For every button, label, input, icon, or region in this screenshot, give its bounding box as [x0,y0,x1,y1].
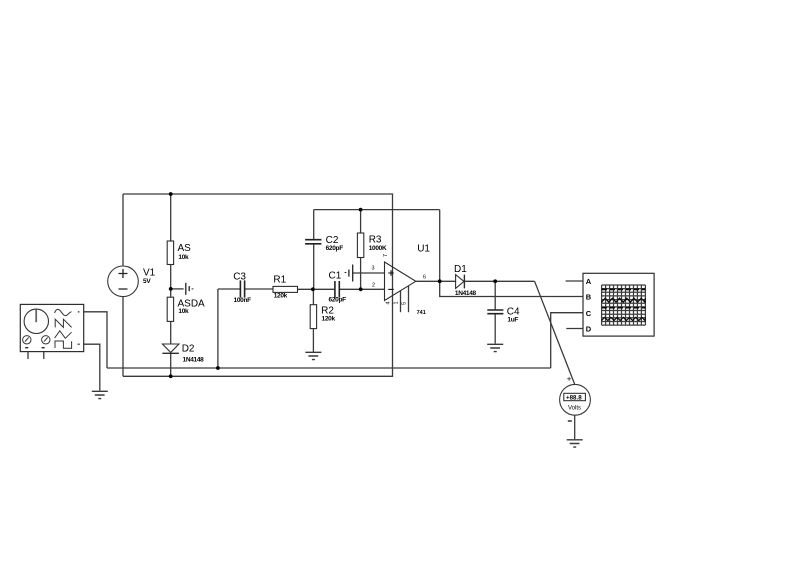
svg-text:1: 1 [394,301,400,304]
svg-text:3: 3 [372,265,375,271]
svg-text:+88.8: +88.8 [566,395,582,402]
svg-text:1000K: 1000K [369,245,387,252]
svg-text:Volts: Volts [568,406,581,412]
svg-text:D1: D1 [454,264,467,275]
svg-text:120k: 120k [322,316,336,323]
svg-text:A: A [586,277,592,286]
svg-text:10k: 10k [178,254,189,261]
svg-text:1uF: 1uF [507,317,518,324]
svg-text:AS: AS [178,243,192,254]
svg-text:10k: 10k [178,308,189,315]
svg-text:120k: 120k [274,293,288,300]
svg-text:620pF: 620pF [326,245,344,252]
svg-text:D2: D2 [182,344,195,355]
svg-text:D: D [586,325,592,334]
svg-text:4: 4 [386,301,392,304]
svg-text:5V: 5V [143,278,151,285]
svg-text:741: 741 [417,310,426,316]
svg-text:U1: U1 [417,243,430,254]
svg-text:100nF: 100nF [234,297,252,304]
svg-text:6: 6 [423,275,426,281]
svg-text:1N4148: 1N4148 [455,290,477,297]
svg-text:5: 5 [402,302,408,305]
svg-text:C: C [586,309,592,318]
svg-text:B: B [586,293,592,302]
svg-text:R3: R3 [369,235,382,246]
svg-text:7: 7 [383,254,389,257]
svg-text:+: + [567,375,572,384]
svg-text:1N4148: 1N4148 [183,357,205,364]
svg-text:C3: C3 [233,272,246,283]
svg-text:C1: C1 [329,271,342,282]
svg-text:R1: R1 [273,274,286,285]
svg-text:2: 2 [372,283,375,289]
svg-text:620pF: 620pF [329,297,347,304]
